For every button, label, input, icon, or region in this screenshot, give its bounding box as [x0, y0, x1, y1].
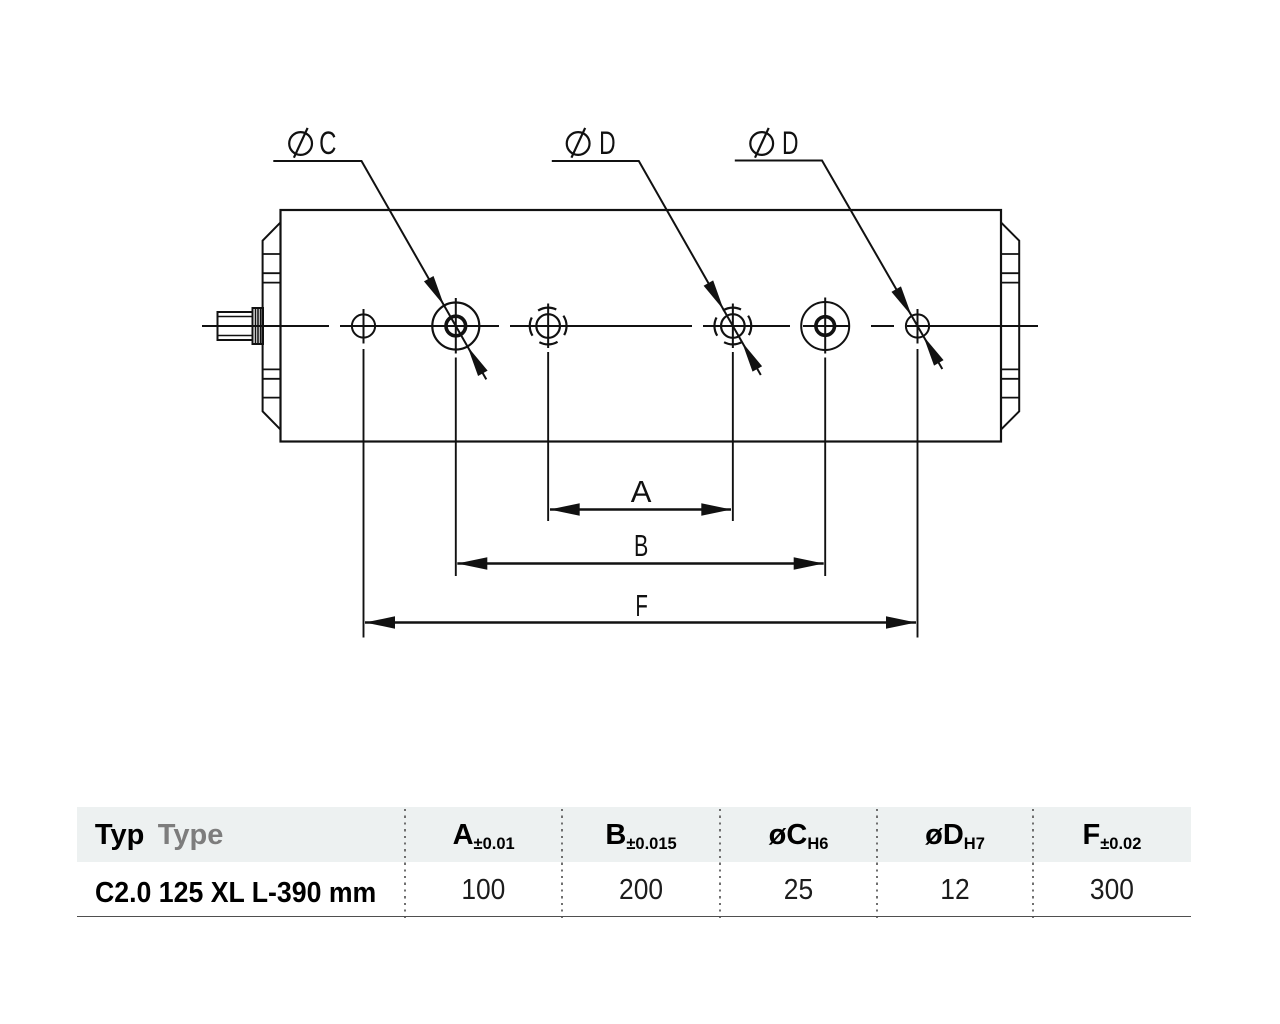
- hole 5: [801, 298, 849, 354]
- extension line hole4: [732, 352, 734, 521]
- right cap ridge lines: [1001, 254, 1019, 398]
- hole 6: [906, 309, 929, 344]
- right end cap: [1001, 222, 1019, 429]
- svg-text:C: C: [319, 125, 336, 161]
- row type name: [95, 879, 376, 908]
- extension line hole3: [547, 352, 549, 521]
- table header background: [77, 807, 1191, 862]
- label phi-D second: [750, 125, 798, 161]
- leader D first: [552, 161, 762, 375]
- centerline: [202, 325, 1038, 327]
- hole 1: [352, 309, 375, 344]
- table column separators (dotted): [404, 809, 406, 919]
- hole 4 (dashed D leader): [714, 304, 751, 349]
- svg-text:D: D: [782, 125, 799, 161]
- header Typ Type: [95, 821, 223, 850]
- header A: [405, 821, 562, 850]
- svg-text:A: A: [631, 474, 652, 509]
- left cap ridge lines: [263, 254, 281, 398]
- extension line hole2: [455, 358, 457, 577]
- value F: [1040, 876, 1184, 905]
- label phi-D first: [567, 125, 616, 161]
- header C: [720, 821, 877, 850]
- leader D second: [735, 161, 944, 370]
- svg-text:B: B: [634, 528, 648, 563]
- hole 3 (dashed D): [530, 304, 567, 349]
- value D: [884, 876, 1026, 905]
- extension line hole6: [917, 349, 919, 638]
- value C: [727, 876, 870, 905]
- table bottom border: [77, 916, 1191, 918]
- svg-text:D: D: [599, 125, 616, 161]
- label phi-C: [289, 125, 336, 161]
- body outline: [281, 210, 1002, 442]
- dimension A: [550, 474, 732, 516]
- shaft bolt: [218, 312, 253, 340]
- left end cap: [263, 222, 281, 429]
- hole 2 (C): [432, 298, 479, 354]
- shaft flange stack: [253, 308, 264, 344]
- value B: [569, 876, 713, 905]
- dimension F: [365, 588, 916, 629]
- value A: [412, 876, 555, 905]
- header D: [877, 821, 1033, 850]
- header F: [1033, 821, 1191, 850]
- leader C: [273, 161, 487, 379]
- extension line hole1: [363, 349, 365, 638]
- extension line hole5: [824, 358, 826, 577]
- technical drawing: [0, 0, 1280, 700]
- dimension B: [457, 528, 823, 570]
- header B: [562, 821, 720, 850]
- svg-text:F: F: [635, 588, 648, 623]
